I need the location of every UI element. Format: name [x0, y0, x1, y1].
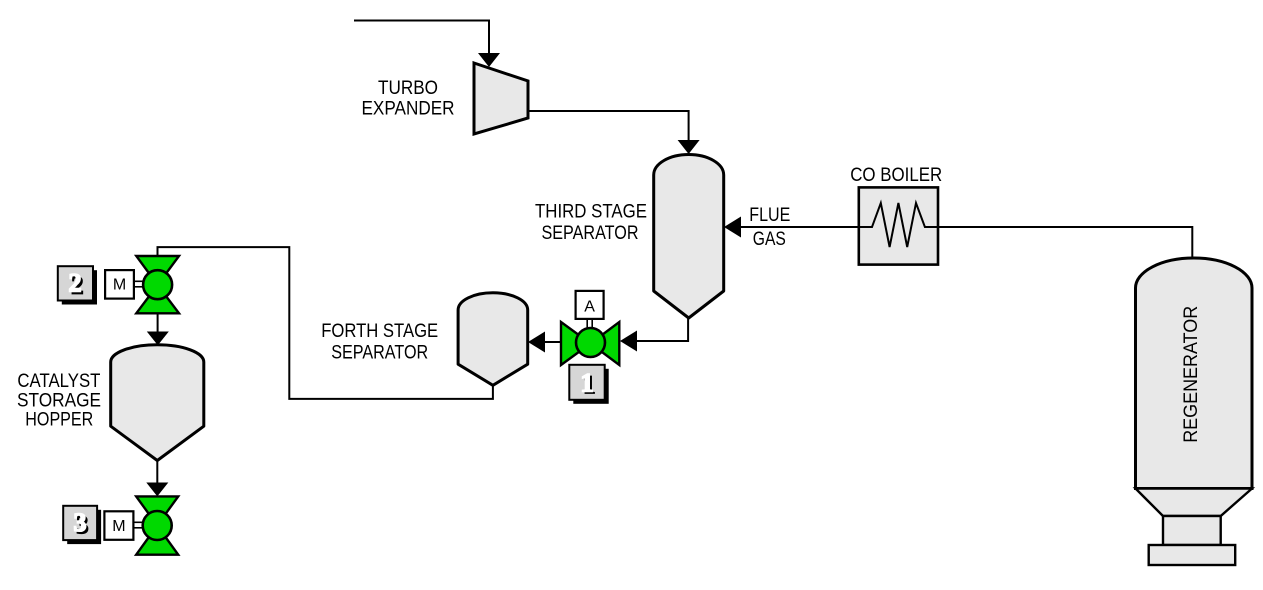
regenerator vessel [1136, 258, 1253, 489]
third stage separator vessel [654, 154, 724, 318]
actuator stem M2 to valve 2 [134, 281, 144, 287]
wire: CO boiler to regenerator [938, 227, 1192, 258]
svg-text:3: 3 [74, 508, 87, 537]
arrow into third stage separator top [678, 140, 700, 154]
arrow into turbo expander top [478, 53, 500, 67]
svg-text:EXPANDER: EXPANDER [362, 99, 455, 120]
CO boiler coil zigzag [859, 203, 938, 247]
actuator box M2 [105, 270, 134, 299]
svg-text:TURBO: TURBO [378, 78, 438, 99]
tag button 1 [569, 365, 608, 404]
catalyst storage hopper vessel [111, 345, 204, 461]
regenerator bottom cone [1136, 489, 1253, 517]
svg-text:CATALYST: CATALYST [17, 371, 100, 392]
wire arrow segment into valve1 [637, 340, 654, 342]
wire: turbo expander to third stage separator [528, 111, 689, 141]
svg-text:CO BOILER: CO BOILER [850, 165, 942, 186]
actuator box A [576, 291, 604, 319]
svg-text:SEPARATOR: SEPARATOR [331, 342, 428, 363]
label CO BOILER [850, 165, 942, 186]
svg-text:FORTH STAGE: FORTH STAGE [321, 321, 438, 342]
svg-text:M: M [112, 518, 125, 535]
arrow flue gas into third stage separator [724, 217, 741, 238]
turbo expander [474, 63, 528, 134]
regenerator neck [1163, 516, 1221, 545]
wire: forth stage separator bottom loop to valve 2 [158, 247, 493, 399]
actuator box M3 [104, 511, 133, 540]
svg-text:REGENERATOR: REGENERATOR [1181, 306, 1202, 443]
wire: valve 1 to forth stage separator [543, 341, 561, 343]
arrow into hopper top [147, 332, 169, 346]
actuator stem A to valve 1 [587, 319, 592, 329]
arrow into forth stage separator right [528, 332, 545, 353]
valve V2 (vertical ball valve) [136, 256, 179, 313]
svg-text:M: M [113, 277, 126, 294]
wire: third stage separator bottom to valve 1 [654, 318, 688, 341]
tag button 3 [63, 506, 101, 544]
regenerator base flange [1149, 545, 1236, 565]
svg-text:1: 1 [581, 368, 594, 397]
svg-text:FLUE: FLUE [749, 205, 790, 226]
tag button 2 [58, 266, 97, 304]
label FLUE GAS [749, 205, 790, 250]
CO boiler box [859, 187, 938, 264]
label THIRD STAGE SEPARATOR [535, 202, 647, 245]
valve V1 (horizontal ball valve) [561, 322, 619, 365]
svg-text:2: 2 [69, 269, 82, 298]
wire: feed line into turbo expander [354, 21, 489, 56]
svg-text:A: A [584, 299, 595, 316]
label FORTH STAGE SEPARATOR [321, 321, 438, 363]
wire: hopper to valve 3 [156, 461, 158, 484]
svg-text:HOPPER: HOPPER [25, 410, 93, 431]
wire: valve 2 to hopper [157, 313, 159, 332]
valve V3 (vertical ball valve) [136, 496, 178, 554]
arrow into valve 3 top [146, 483, 168, 497]
label TURBO EXPANDER [362, 78, 455, 120]
svg-text:GAS: GAS [753, 229, 786, 250]
label CATALYST STORAGE HOPPER [17, 371, 101, 431]
label REGENERATOR (rotated) [1181, 306, 1202, 443]
svg-text:SEPARATOR: SEPARATOR [542, 223, 639, 244]
arrow into valve 1 right [620, 331, 637, 352]
svg-text:THIRD STAGE: THIRD STAGE [535, 202, 647, 223]
actuator stem M3 to valve 3 [134, 522, 144, 528]
forth stage separator vessel [458, 293, 528, 386]
svg-text:STORAGE: STORAGE [17, 391, 101, 412]
wire: flue gas line from CO boiler to third stage separator [740, 226, 859, 228]
